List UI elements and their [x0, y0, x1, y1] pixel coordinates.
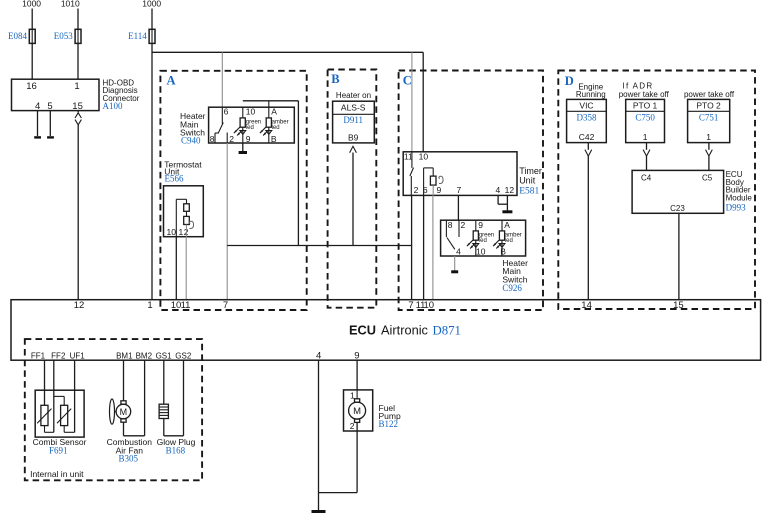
svg-text:6: 6: [224, 106, 229, 116]
F691 jog FF2 to RT5 top: [54, 396, 64, 405]
ECU pin 1 label: [147, 300, 152, 311]
wire fuse E053 to A100 pin 1: [77, 43, 79, 79]
svg-text:4: 4: [35, 101, 40, 112]
E566 pin 1 label: [179, 227, 184, 237]
label Heater Main Switch C940: [180, 111, 206, 145]
svg-text:C926: C926: [502, 283, 522, 293]
wire A100 pin 15 down: [77, 111, 79, 113]
label Internal in unit: [30, 469, 84, 479]
svg-text:8: 8: [210, 134, 215, 144]
svg-text:1: 1: [74, 81, 79, 92]
switch S2 box C926 Heater Main Switch: [441, 220, 526, 256]
label Termostat Unit E566: [164, 159, 202, 183]
C926 amber led D4: [499, 220, 521, 256]
C940 amber led light arrows: [260, 127, 272, 135]
arrowhead down on VIC wire: [585, 150, 592, 157]
label Timer Unit E581: [519, 166, 542, 196]
svg-text:1: 1: [147, 300, 152, 311]
svg-text:14: 14: [581, 300, 592, 311]
svg-text:10: 10: [246, 106, 256, 116]
wire PTO2 to BBM C5: [708, 156, 710, 170]
svg-text:FF1: FF1: [31, 351, 46, 360]
B122 pin 2 label: [350, 421, 355, 431]
svg-text:C750: C750: [635, 112, 655, 122]
svg-text:Running: Running: [576, 90, 606, 99]
svg-text:E581: E581: [519, 186, 539, 196]
wire E581 pins 4 and 12 to ground: [498, 195, 507, 211]
E566 pin 2 label: [184, 227, 189, 237]
fuse E114: [128, 29, 155, 43]
svg-text:UF1: UF1: [70, 351, 86, 360]
section label B: [331, 72, 339, 86]
svg-text:D871: D871: [433, 323, 461, 337]
ECU pin BM1 label: [116, 351, 133, 360]
svg-text:B: B: [271, 134, 277, 144]
wire C940 led supply rail: [243, 100, 299, 102]
section box B (dashed): [328, 70, 377, 308]
C926 green led D3: [473, 220, 494, 256]
label A100 HD-OBD Diagnosis Connector: [103, 79, 140, 111]
svg-text:12: 12: [505, 185, 515, 195]
E581 pin 2 label: [414, 185, 419, 195]
ground at ECU pin 4: [312, 510, 326, 513]
fuse E084: [8, 29, 35, 43]
svg-text:A: A: [504, 220, 510, 230]
F691 thermistor RT5: [57, 405, 71, 425]
wire E566 pin 10 to ECU pin 10: [175, 237, 177, 300]
svg-text:10: 10: [419, 151, 429, 161]
ECU pin 7 label section C: [408, 300, 413, 311]
svg-text:2: 2: [414, 185, 419, 195]
wire ECU pin 4 to ground: [318, 360, 320, 510]
section box A (dashed): [160, 71, 306, 310]
svg-text:A100: A100: [103, 101, 123, 111]
wire A100 pin 15 to ECU pin 12: [77, 125, 79, 300]
svg-text:B122: B122: [379, 419, 399, 429]
C940 amber led D2: [266, 101, 288, 143]
ECU pin 12 label: [74, 300, 85, 311]
svg-text:4: 4: [456, 247, 461, 257]
ECU pin 10 label section C: [424, 300, 435, 311]
svg-text:2: 2: [350, 421, 355, 431]
ground at C940 pin 9: [239, 151, 247, 154]
E581 pin 6 label: [423, 185, 428, 195]
label If ADR power take off: [619, 82, 670, 99]
svg-text:4: 4: [496, 185, 501, 195]
wire A100 pin 5 to ground: [49, 111, 51, 136]
E581 internal loop pin 6: [424, 168, 434, 196]
glow plug B168: [159, 404, 168, 418]
wire fan motor to BM2: [124, 422, 145, 436]
svg-text:1: 1: [706, 132, 711, 142]
E581 internal switch pin 11 to pin 2: [410, 152, 414, 196]
wire C940 pin 2 down to ECU pin 7: [226, 143, 228, 300]
svg-text:ECU: ECU: [349, 322, 376, 337]
C926 pin 9 label: [478, 220, 483, 230]
C926 pin 2 stub: [458, 220, 460, 237]
wire ECU FF1 to combi sensor: [44, 360, 46, 405]
svg-text:power take off: power take off: [619, 90, 670, 99]
svg-text:M: M: [353, 406, 361, 417]
svg-text:E084: E084: [8, 31, 27, 41]
ground at A100 pin 5: [47, 136, 54, 138]
ECU pin UF1 label: [70, 351, 86, 360]
C926 pin A label: [504, 220, 510, 230]
svg-text:9: 9: [478, 220, 483, 230]
svg-text:7: 7: [223, 300, 228, 311]
svg-text:Module: Module: [726, 193, 753, 202]
E566 wire RT2 to pin 2: [186, 225, 188, 237]
ECU pin 10 label: [171, 300, 182, 311]
E581 pin 10 label: [419, 151, 429, 161]
connector separation symbol on pin 15 wire: [75, 113, 81, 125]
svg-text:D911: D911: [343, 115, 363, 125]
ECU pin FF1 label: [31, 351, 46, 360]
label ECU Body Builder Module D993: [726, 170, 753, 212]
E566 internal wire pin 10 to sensors: [176, 199, 186, 236]
C940 green led D1: [240, 107, 261, 143]
wire C926 pin 4 to ground: [454, 256, 456, 271]
E581 pin 11 label: [404, 151, 413, 161]
wire PTO2 pin 1 down: [708, 143, 710, 150]
C940 pin 8 label: [210, 134, 215, 144]
E581 pin 7 label: [457, 185, 462, 195]
ECU pin 11 label: [181, 300, 191, 311]
svg-text:B305: B305: [119, 453, 139, 463]
wire E581 pin 9 to ECU pin 10: [432, 195, 434, 299]
label Heater Main Switch C926: [502, 258, 528, 293]
svg-text:VIC: VIC: [579, 100, 593, 110]
label ECU Airtronic D871: [349, 322, 461, 337]
wire A100 pin 4 to ground: [37, 111, 39, 136]
wire to timer pin 11: [411, 52, 413, 152]
svg-text:16: 16: [26, 81, 37, 92]
B122 pin 1 label: [350, 391, 355, 401]
svg-text:1010: 1010: [61, 0, 80, 9]
section box C (dashed): [399, 71, 543, 311]
svg-text:2: 2: [461, 220, 466, 230]
svg-text:Internal in unit: Internal in unit: [30, 469, 84, 479]
svg-text:ALS-S: ALS-S: [341, 103, 366, 113]
internal in unit dashed box: [25, 339, 202, 480]
svg-text:F691: F691: [49, 445, 68, 455]
ECU pin 9 label: [354, 350, 359, 361]
svg-text:1: 1: [643, 132, 648, 142]
ECU pin 11 label section C: [416, 300, 426, 311]
C926 pin 4 label: [456, 247, 461, 257]
fuse E053: [54, 29, 81, 43]
svg-text:E114: E114: [128, 31, 147, 41]
svg-text:C4: C4: [641, 173, 652, 182]
wire fuel pump pin 2 down: [319, 422, 358, 492]
wire from node 1000 to fuse E114: [151, 9, 153, 30]
sensor box F691 Combi Sensor: [35, 390, 84, 437]
svg-text:1000: 1000: [22, 0, 41, 9]
wire E581 pin 6 to ECU pin 11: [423, 195, 425, 299]
svg-text:E053: E053: [54, 31, 73, 41]
wire from node 1010 to fuse E053: [77, 9, 79, 30]
wire C940 pin 9 to ground: [242, 143, 244, 152]
ground at A100 pin 4: [34, 136, 41, 138]
connector A100 HD-OBD Diagnosis Connector: [12, 79, 100, 112]
connector box PTO 2 C751: [688, 99, 730, 142]
svg-text:PTO 1: PTO 1: [633, 100, 658, 110]
svg-text:5: 5: [47, 101, 52, 112]
ECU box D871 ECU Airtronic: [11, 300, 761, 361]
connector box VIC D358: [567, 99, 607, 142]
C940 pin 2 label: [229, 134, 234, 144]
wire supply branch to C940 pin 6: [221, 52, 223, 107]
section box D (dashed): [558, 71, 755, 310]
svg-text:PTO 2: PTO 2: [696, 100, 721, 110]
F691 RT5 bottom link to UF1: [64, 426, 74, 433]
node 1000 (supply net label): [22, 0, 41, 9]
ground at C926 pin 4: [451, 270, 458, 273]
svg-text:power take off: power take off: [684, 90, 735, 99]
ECU pin BM2 label: [136, 351, 153, 360]
svg-text:BM2: BM2: [136, 351, 153, 360]
svg-text:A: A: [167, 74, 176, 88]
wire ECU UF1 to combi sensor: [74, 360, 76, 432]
C940 pin 10 label: [246, 106, 256, 116]
svg-text:led: led: [479, 238, 487, 244]
wire fuse E114 down to ECU pin 1: [151, 43, 153, 299]
svg-text:M: M: [120, 407, 128, 417]
wire PTO1 pin 1 down: [646, 143, 648, 150]
svg-text:9: 9: [437, 185, 442, 195]
ECU pin 15 label: [673, 300, 684, 311]
C940 switch contact pin 6 stub: [221, 107, 223, 124]
svg-text:1000: 1000: [142, 0, 161, 9]
svg-text:C751: C751: [699, 112, 719, 122]
wire arrow to ALS-S pin B9: [352, 153, 354, 246]
E566 pin 10 label: [167, 227, 177, 237]
ECU pin 4 label: [316, 350, 321, 361]
svg-text:10: 10: [167, 227, 177, 237]
label Combi Sensor F691: [33, 437, 87, 455]
svg-text:FF2: FF2: [51, 351, 66, 360]
svg-text:15: 15: [673, 300, 684, 311]
C940 pin A label: [271, 106, 277, 116]
svg-text:10: 10: [476, 247, 486, 257]
svg-text:8: 8: [448, 220, 453, 230]
C940 green led light arrows: [234, 127, 246, 135]
svg-text:4: 4: [316, 350, 321, 361]
node 1010 (supply net label): [61, 0, 80, 9]
indicator box ALS-S D911: [333, 101, 375, 143]
svg-text:Unit: Unit: [519, 176, 536, 186]
svg-text:1: 1: [179, 227, 184, 237]
wire BM2 up to ECU: [144, 360, 146, 436]
wire ECU pin 9 to fuel pump: [356, 360, 358, 390]
C940 pin 2 stub: [226, 133, 228, 144]
wire main supply horizontal from E114 to section C: [152, 51, 423, 53]
C940 pin B label: [271, 134, 277, 144]
thermostat box E566: [164, 186, 204, 237]
motor M2 fuel pump: [349, 390, 366, 423]
svg-text:B168: B168: [166, 445, 186, 455]
label Combustion Air Fan B305: [107, 437, 153, 463]
node 1000 second (supply net label): [142, 0, 161, 9]
wire rail down right side of section A: [297, 101, 299, 246]
wire supply to timer pin 10: [422, 52, 424, 152]
switch S1 box C940 Heater Main Switch: [209, 107, 295, 143]
E581 pin 9 label: [437, 185, 442, 195]
E581 internal resistor RT3: [430, 176, 436, 185]
C926 switch pin 8 stub and blade to pin 4: [446, 220, 454, 249]
svg-text:GS1: GS1: [156, 351, 173, 360]
C926 pin 10 label: [476, 247, 486, 257]
wire PTO1 to BBM C4: [646, 156, 648, 170]
E566 thermistor RT1: [184, 204, 190, 212]
wire E581 pin 7 to C926 pin 2: [457, 195, 459, 220]
pump box B122 Fuel Pump: [344, 390, 373, 431]
svg-text:12: 12: [74, 300, 85, 311]
svg-text:D: D: [565, 74, 574, 88]
svg-text:Heater on: Heater on: [336, 91, 371, 100]
svg-text:C: C: [403, 74, 412, 88]
wire glow plug to GS2: [164, 419, 184, 436]
label Fuel Pump B122: [379, 403, 401, 429]
fan blade of combustion air fan: [110, 399, 117, 424]
C926 pin 2 label: [461, 220, 466, 230]
ground at E581 pin 12: [502, 210, 512, 213]
E566 thermistor RT2: [184, 216, 190, 224]
svg-text:led: led: [246, 125, 254, 131]
svg-text:B: B: [500, 247, 506, 257]
wire ECU BM1 to fan motor: [123, 360, 125, 401]
svg-text:C5: C5: [702, 173, 713, 182]
wire VIC C42 down: [587, 143, 589, 150]
label Heater on: [336, 91, 371, 100]
svg-text:7: 7: [457, 185, 462, 195]
arrowhead down on PTO1 wire: [643, 150, 650, 157]
C926 green led light arrows: [467, 240, 479, 248]
svg-text:led: led: [272, 125, 280, 131]
E581 actuator hook: [439, 176, 443, 183]
ECU pin 7 label: [223, 300, 228, 311]
wire E566 pin 2 to ECU pin 11: [185, 237, 187, 300]
svg-text:2: 2: [229, 134, 234, 144]
svg-text:Airtronic: Airtronic: [381, 322, 429, 337]
F691 thermistor RT4: [37, 405, 51, 425]
svg-text:B9: B9: [348, 132, 359, 142]
C940 switch blade pin 8 to pin 6: [215, 123, 223, 144]
E566 link RT1 to RT2: [186, 211, 188, 216]
C940 pin 6 label: [224, 106, 229, 116]
wire E581 pin 2 to ECU pin 7: [411, 195, 413, 299]
svg-text:10: 10: [424, 300, 435, 311]
svg-text:C42: C42: [579, 132, 595, 142]
ECU pin FF2 label: [51, 351, 66, 360]
section label A: [167, 74, 176, 88]
svg-text:A: A: [271, 106, 277, 116]
svg-text:D358: D358: [577, 112, 597, 122]
label power take off 2: [684, 90, 735, 99]
svg-text:C940: C940: [181, 135, 201, 145]
module box ECU Body Builder Module D993: [632, 170, 724, 213]
svg-text:11: 11: [181, 300, 191, 311]
section label C: [403, 74, 412, 88]
svg-text:C23: C23: [670, 204, 685, 213]
svg-text:GS2: GS2: [175, 351, 192, 360]
connector box PTO 1 C750: [626, 99, 665, 142]
wire signal net horizontal A to C: [227, 245, 412, 247]
svg-text:15: 15: [72, 101, 83, 112]
svg-text:E566: E566: [165, 174, 184, 184]
E581 pin 4 label: [496, 185, 501, 195]
svg-text:D993: D993: [726, 203, 746, 213]
C926 amber led light arrows: [493, 240, 505, 248]
svg-text:9: 9: [354, 350, 359, 361]
E581 resistor to pin 9: [432, 185, 434, 195]
svg-text:7: 7: [408, 300, 413, 311]
E581 pin 12 label: [505, 185, 515, 195]
motor M1 combustion air fan B305: [116, 401, 131, 422]
svg-text:9: 9: [246, 134, 251, 144]
wire ECU FF2 to combi sensor: [53, 360, 55, 432]
section label D: [565, 74, 574, 88]
C940 pin 9 label: [246, 134, 251, 144]
E566 actuator hook: [189, 221, 193, 228]
ECU pin GS1 label: [156, 351, 173, 360]
wire fuse E084 to A100 pin 16: [31, 43, 33, 79]
arrowhead up at ALS-S: [350, 146, 357, 153]
C926 pin B label: [500, 247, 506, 257]
F691 RT4 bottom link to FF2: [45, 426, 54, 433]
arrowhead down on PTO2 wire: [706, 150, 713, 157]
svg-text:BM1: BM1: [116, 351, 133, 360]
wire from node 1000 to fuse E084: [31, 9, 33, 30]
label Engine Running: [576, 83, 606, 100]
wire GS2 up to ECU: [183, 360, 185, 436]
wire ECU GS1 to glow plug: [163, 360, 165, 404]
svg-text:led: led: [505, 238, 513, 244]
ECU pin GS2 label: [175, 351, 192, 360]
timer unit box E581: [403, 152, 517, 196]
ECU pin 14 label: [581, 300, 592, 311]
C926 pin 8 label: [448, 220, 453, 230]
svg-text:B: B: [331, 72, 339, 86]
wire VIC to ECU pin 14: [587, 156, 589, 300]
wire BBM C23 to ECU pin 15: [678, 213, 680, 299]
label Glow Plug B168: [157, 437, 196, 455]
